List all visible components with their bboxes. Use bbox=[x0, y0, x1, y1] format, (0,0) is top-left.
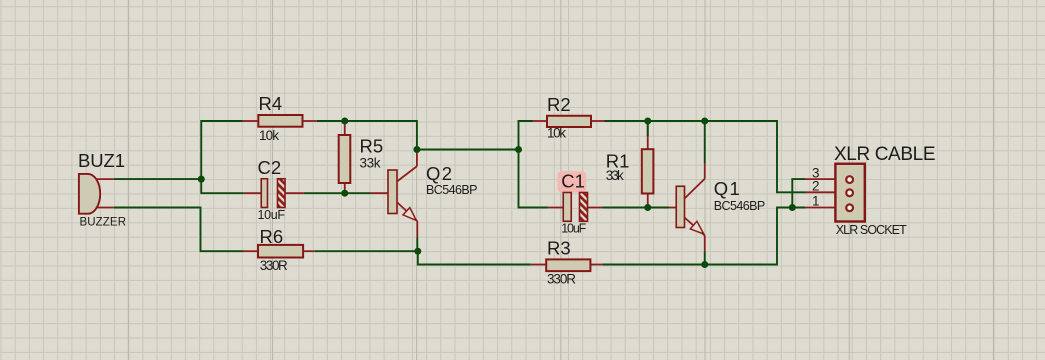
svg-text:XLR CABLE: XLR CABLE bbox=[834, 144, 936, 165]
svg-text:10k: 10k bbox=[547, 126, 566, 141]
wire R3 to XLR pin1 riser bbox=[603, 208, 805, 265]
svg-text:330R: 330R bbox=[260, 258, 288, 273]
wire junction down to R3 rail bbox=[418, 251, 531, 264]
node Q1 emitter junction bbox=[701, 261, 708, 268]
resistor R3 bbox=[531, 238, 603, 287]
capacitor C2 bbox=[244, 157, 304, 222]
capacitor C1 (highlighted) bbox=[548, 170, 603, 235]
pin 3 hole bbox=[846, 176, 853, 183]
wire Q2 collector rail to stage 2 bbox=[417, 149, 519, 151]
resistor R4 bbox=[243, 93, 317, 143]
pin 2 hole bbox=[846, 189, 853, 196]
node pin1/pin3 junction bbox=[789, 204, 796, 211]
wire C1 to R1 bottom / Q1 base bbox=[603, 207, 670, 209]
node C2/R5/base junction bbox=[341, 190, 348, 197]
wire stage2 drop to C1 bbox=[519, 150, 548, 208]
node stage2 junction bbox=[515, 146, 522, 153]
resistor R6 bbox=[244, 226, 315, 273]
resistor R1 bbox=[606, 121, 654, 208]
svg-text:C2: C2 bbox=[258, 157, 282, 178]
svg-text:BUZZER: BUZZER bbox=[80, 217, 127, 229]
svg-text:XLR SOCKET: XLR SOCKET bbox=[836, 223, 907, 237]
wire buzzer top pin to node A bbox=[114, 178, 202, 180]
wire R1 top green part bbox=[647, 121, 649, 136]
wire Q1 collector green part bbox=[704, 121, 706, 163]
wire R2 to top-right rail bbox=[605, 121, 806, 192]
wire R6 to junction bbox=[315, 250, 418, 252]
svg-text:10uF: 10uF bbox=[258, 208, 286, 222]
svg-text:BC546BP: BC546BP bbox=[714, 199, 766, 213]
pin 1 hole bbox=[846, 204, 853, 211]
svg-text:R2: R2 bbox=[547, 94, 571, 115]
node A junction bbox=[198, 176, 205, 183]
wire stage2 riser up to R2 bbox=[519, 121, 533, 150]
transistor Q2 bbox=[371, 153, 478, 238]
node C1/R1/base junction bbox=[644, 204, 651, 211]
node Q1 collector top junction bbox=[701, 118, 708, 125]
svg-text:10uF: 10uF bbox=[561, 222, 586, 236]
svg-text:330R: 330R bbox=[547, 272, 576, 287]
svg-text:33k: 33k bbox=[606, 168, 624, 183]
buzzer BUZ1 bbox=[78, 150, 126, 229]
svg-text:1: 1 bbox=[812, 194, 820, 209]
svg-text:Q2: Q2 bbox=[426, 163, 452, 184]
svg-text:2: 2 bbox=[812, 178, 820, 193]
svg-text:BUZ1: BUZ1 bbox=[78, 150, 125, 171]
wire R4 to corner, top-left rail bbox=[317, 121, 417, 150]
wire Q2 emitter to bottom rail bbox=[416, 238, 418, 252]
transistor Q1 bbox=[669, 163, 765, 252]
svg-text:C1: C1 bbox=[561, 170, 585, 191]
connector XLR socket J1 bbox=[805, 144, 936, 237]
resistor R5 bbox=[339, 125, 383, 194]
resistor R2 bbox=[533, 94, 605, 141]
svg-text:R5: R5 bbox=[360, 136, 384, 157]
wire Q1 emitter to bottom rail bbox=[704, 252, 706, 265]
svg-text:Q1: Q1 bbox=[714, 178, 740, 199]
wire C2 to R5 bottom / Q2 base bbox=[304, 192, 371, 194]
svg-text:10k: 10k bbox=[259, 128, 279, 143]
wire pin3 branch riser bbox=[792, 179, 805, 207]
svg-text:R3: R3 bbox=[547, 238, 571, 259]
wire node A up to top rail bbox=[201, 121, 242, 179]
node Q2 collector junction bbox=[413, 146, 420, 153]
svg-text:R6: R6 bbox=[260, 226, 284, 247]
svg-text:33k: 33k bbox=[360, 156, 381, 171]
node R1 top junction bbox=[644, 118, 651, 125]
svg-text:R4: R4 bbox=[259, 93, 283, 114]
node R4/R5 junction bbox=[341, 118, 348, 125]
node bottom-left rail junction bbox=[414, 248, 421, 255]
svg-text:BC546BP: BC546BP bbox=[426, 183, 478, 197]
wire buzzer bottom pin to R6 rail bbox=[114, 208, 244, 252]
wire node A down to C2 bbox=[201, 179, 244, 193]
